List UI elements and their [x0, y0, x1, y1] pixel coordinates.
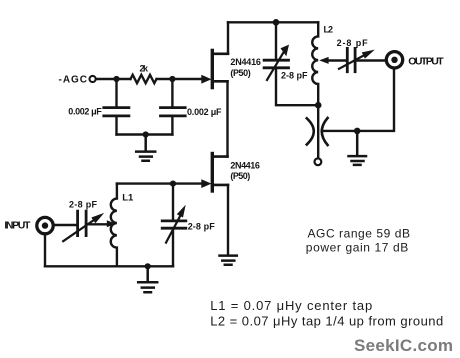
- transistor Q1 2N4416: [201, 50, 228, 87]
- capacitor C1 0.002uF: [104, 108, 129, 116]
- wire L2 bottom to open terminal: [317, 105, 319, 157]
- wire AGC terminal to resistor: [97, 78, 131, 80]
- node junction ground1: [143, 131, 149, 137]
- svg-text:0.002 μF: 0.002 μF: [68, 107, 102, 117]
- wire top rail: [228, 21, 318, 23]
- node -AGC terminal: [90, 76, 96, 82]
- wire input jack to C6: [55, 224, 78, 226]
- wire L2 tap with arrow: [319, 57, 347, 64]
- wire C1 bottom lead: [115, 117, 117, 134]
- svg-text:(P50): (P50): [230, 171, 250, 181]
- connector OUTPUT jack: [386, 52, 402, 68]
- label 2-8 pF C4: [337, 38, 369, 48]
- wire Q1 source to Q2 drain: [226, 81, 228, 156]
- svg-text:INPUT: INPUT: [4, 220, 31, 232]
- ground G1: [136, 135, 155, 161]
- label INPUT: [4, 220, 31, 232]
- wire C6 to L1 tap with arrow: [86, 220, 116, 227]
- svg-text:L1: L1: [122, 192, 134, 203]
- note L1 value: [210, 298, 372, 313]
- svg-text:2-8 pF: 2-8 pF: [69, 200, 98, 210]
- wire C4 to output jack: [355, 59, 385, 61]
- node junction tank top: [170, 181, 176, 187]
- wire resistor to Q1 gate: [157, 78, 203, 80]
- svg-text:AGC range 59 dB: AGC range 59 dB: [308, 227, 411, 241]
- wire C2 top lead: [171, 79, 173, 106]
- wire input jack ground drop: [44, 235, 46, 267]
- wire C7 top lead: [172, 184, 174, 220]
- capacitor C3 variable 2-8pF: [264, 45, 289, 80]
- note L2 value: [210, 314, 443, 329]
- wire Q2 source to ground: [227, 185, 229, 255]
- label 2N4416 Q2: [230, 160, 260, 170]
- label 2-8 pF C6: [69, 200, 98, 210]
- node junction ground4: [145, 263, 151, 269]
- note AGC range: [308, 227, 411, 241]
- svg-text:2-8 pF: 2-8 pF: [281, 70, 308, 80]
- wire C3 bottom lead: [276, 69, 318, 105]
- svg-text:L2 = 0.07 μHy tap 1/4 up from: L2 = 0.07 μHy tap 1/4 up from ground: [210, 314, 443, 329]
- node junction AGC-C2: [169, 76, 175, 82]
- label L1: [122, 192, 134, 203]
- note power gain: [306, 240, 409, 254]
- node junction ground3: [354, 128, 361, 135]
- label L2: [324, 24, 334, 34]
- -AGC label: [59, 74, 88, 85]
- capacitor C4 variable 2-8pF output: [339, 48, 375, 71]
- wire tank bottom rail: [45, 265, 173, 267]
- svg-text:-AGC: -AGC: [59, 74, 88, 85]
- wire C2 bottom lead: [171, 117, 173, 134]
- wire C5 to ground junction: [322, 69, 394, 131]
- svg-text:0.002 μF: 0.002 μF: [187, 107, 222, 117]
- label (P50) Q1: [230, 68, 250, 78]
- label 0.002 uF right: [187, 107, 222, 117]
- label 2-8 pF C7: [188, 221, 216, 231]
- ground G3: [349, 131, 367, 165]
- node open terminal: [315, 158, 322, 165]
- inductor L2: [312, 22, 318, 105]
- capacitor C6 variable 2-8pF input: [63, 211, 104, 241]
- svg-text:(P50): (P50): [230, 68, 250, 78]
- label 2N4416 Q1: [230, 57, 261, 67]
- wire L1 top rail to Q2 gate: [117, 182, 202, 184]
- capacitor C5 feedthrough arcs: [307, 118, 328, 145]
- wire Q1 drain up: [227, 22, 229, 54]
- watermark SeekIC.com: [354, 336, 453, 355]
- connector INPUT jack: [37, 217, 53, 233]
- node junction AGC-C1: [113, 76, 119, 82]
- svg-text:SeekIC.com: SeekIC.com: [354, 336, 453, 355]
- capacitor C7 variable 2-8pF tank: [162, 205, 186, 243]
- wire C3 top lead: [275, 22, 277, 59]
- svg-text:2-8 pF: 2-8 pF: [188, 221, 216, 231]
- label 2-8 pF C3: [281, 70, 308, 80]
- wire AGC bypass bottom: [117, 133, 173, 135]
- svg-text:L2: L2: [324, 24, 334, 34]
- svg-text:L1 = 0.07 μHy center tap: L1 = 0.07 μHy center tap: [210, 298, 372, 313]
- svg-text:2k: 2k: [140, 64, 149, 74]
- capacitor C2 0.002uF: [161, 108, 186, 116]
- label 0.002 uF left: [68, 107, 102, 117]
- node junction L2 bottom: [315, 102, 322, 109]
- wire C7 bottom lead: [172, 229, 174, 266]
- label (P50) Q2: [230, 171, 250, 181]
- label 2k: [140, 64, 149, 74]
- label OUTPUT: [408, 56, 444, 68]
- ground G2: [220, 256, 237, 265]
- transistor Q2 2N4416: [201, 154, 228, 192]
- node junction top rail / C3: [273, 19, 280, 26]
- inductor L1: [111, 184, 117, 267]
- svg-text:2N4416: 2N4416: [230, 57, 261, 67]
- svg-text:2N4416: 2N4416: [230, 160, 260, 170]
- wire C1 top lead: [115, 79, 117, 106]
- svg-text:2-8 pF: 2-8 pF: [337, 38, 369, 48]
- svg-text:OUTPUT: OUTPUT: [408, 56, 444, 68]
- ground G4: [138, 266, 157, 292]
- svg-text:power gain 17 dB: power gain 17 dB: [306, 240, 409, 254]
- resistor R 2k: [131, 75, 157, 83]
